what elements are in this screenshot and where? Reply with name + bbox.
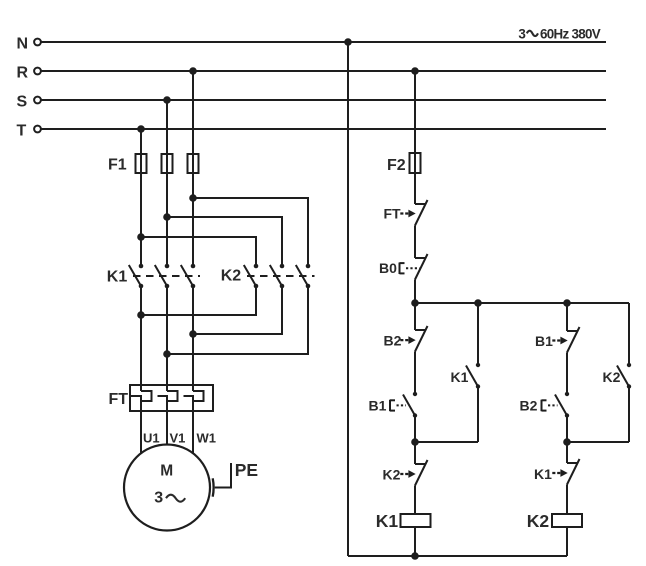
svg-text:F2: F2 [387, 157, 406, 174]
node A2 (phase S tap) [163, 213, 171, 221]
pushbutton B1 (NO, start forward) [369, 392, 418, 418]
node C2 [474, 299, 482, 307]
node D3 [411, 552, 419, 560]
svg-text:3: 3 [518, 27, 525, 42]
wire [414, 226, 416, 259]
node on R bus (control) [411, 67, 419, 75]
svg-text:K1: K1 [376, 511, 399, 531]
protective earth PE [213, 460, 258, 497]
wire phase S to K2 pole 2 [167, 217, 282, 266]
svg-text:B1: B1 [369, 398, 387, 414]
wire bottom return [348, 555, 567, 557]
wire motor lead U (upper) [140, 286, 142, 391]
svg-text:K2: K2 [603, 369, 621, 385]
wire phase R to K2 pole 3 [193, 198, 308, 266]
wire [414, 352, 416, 395]
contact FT (NC, overload trip) [384, 200, 428, 226]
pushbutton B2 (NO, start reverse) [520, 392, 570, 418]
wire K2 pole 2 to lead W [193, 286, 282, 334]
node B3 (lead V tap) [163, 350, 171, 358]
svg-text:W1: W1 [197, 431, 217, 446]
wire [414, 527, 416, 556]
wire R phase feeder [192, 71, 194, 266]
supply label 3~ 60Hz 380V [518, 27, 600, 42]
fuse F1 [108, 154, 199, 174]
wire K2 pole 3 to lead V [167, 286, 308, 354]
contactor K1 main contacts [107, 264, 200, 289]
svg-text:K1: K1 [107, 269, 128, 286]
node A1 (phase R tap) [189, 194, 197, 202]
svg-text:B0: B0 [379, 260, 397, 276]
contactor K2 main contacts [221, 264, 315, 289]
node B1 (lead U tap) [137, 311, 145, 319]
bus line S [17, 93, 607, 110]
wire lead W to motor [192, 401, 194, 454]
svg-text:60Hz 380V: 60Hz 380V [540, 27, 601, 42]
thermal overload relay FT [109, 385, 214, 411]
wire T phase feeder [140, 129, 142, 266]
wire [566, 353, 568, 395]
svg-text:M: M [160, 463, 173, 480]
wire K2 pole 1 to lead U [141, 286, 256, 315]
pushbutton B2 break contact (NC) in K1 branch [384, 326, 428, 352]
wire [414, 280, 416, 304]
wire control distribution [415, 302, 629, 304]
svg-text:K1: K1 [534, 466, 552, 482]
node B2 (lead W tap) [189, 330, 197, 338]
svg-text:3: 3 [154, 490, 163, 507]
wire [414, 486, 416, 515]
wire lead U to motor [140, 401, 142, 454]
wire phase T to K2 pole 1 [141, 237, 256, 266]
svg-text:B2: B2 [384, 333, 402, 349]
bus line R [17, 64, 607, 81]
svg-text:FT: FT [109, 391, 129, 408]
node on R bus (power) [189, 67, 197, 75]
wire motor lead W (upper) [192, 286, 194, 391]
node A3 (phase T tap) [137, 233, 145, 241]
terminal labels U1 V1 W1 [143, 431, 216, 446]
wire [566, 416, 568, 443]
fuse F2 [387, 153, 421, 174]
svg-text:F1: F1 [108, 157, 127, 174]
node D1 [411, 438, 419, 446]
motor M1 (3-phase) [124, 445, 210, 531]
svg-text:PE: PE [235, 460, 258, 480]
svg-text:T: T [17, 122, 27, 139]
coil K1 [376, 511, 431, 531]
svg-text:K1: K1 [451, 369, 469, 385]
wire lead V to motor [166, 401, 168, 445]
svg-text:N: N [17, 35, 29, 52]
wire left control rail [347, 42, 349, 556]
svg-text:B1: B1 [535, 333, 553, 349]
wire [566, 303, 568, 331]
node C1 [411, 299, 419, 307]
coil K2 [527, 511, 582, 531]
svg-text:K2: K2 [221, 268, 242, 285]
contact K1 interlock (NC) in K2 branch [534, 442, 580, 485]
node on N bus [344, 38, 352, 46]
bus line N [17, 35, 607, 52]
svg-text:K2: K2 [527, 511, 550, 531]
pushbutton B0 (NC, stop) [379, 254, 428, 280]
bus line T [17, 122, 607, 139]
auxiliary contact K1 (NO, seal-in) [415, 303, 480, 442]
svg-text:B2: B2 [520, 398, 538, 414]
node on T bus [137, 125, 145, 133]
node C3 [563, 299, 571, 307]
wire [566, 527, 568, 556]
wire motor lead V (upper) [166, 286, 168, 391]
wire S phase feeder [166, 100, 168, 266]
node D2 [563, 438, 571, 446]
node on S bus [163, 96, 171, 104]
svg-text:R: R [17, 64, 29, 81]
wire control branch upper [414, 71, 416, 204]
auxiliary contact K2 (NO, seal-in) [567, 303, 631, 442]
contact K2 interlock (NC) in K1 branch [383, 442, 428, 486]
svg-text:K2: K2 [383, 467, 401, 483]
svg-text:FT: FT [384, 206, 402, 222]
svg-text:V1: V1 [170, 431, 186, 446]
pushbutton B1 break contact (NC) in K2 branch [535, 327, 580, 353]
svg-text:S: S [17, 93, 28, 110]
svg-text:U1: U1 [143, 431, 160, 446]
wire [414, 303, 416, 330]
wire [414, 416, 416, 443]
wire [566, 485, 568, 515]
